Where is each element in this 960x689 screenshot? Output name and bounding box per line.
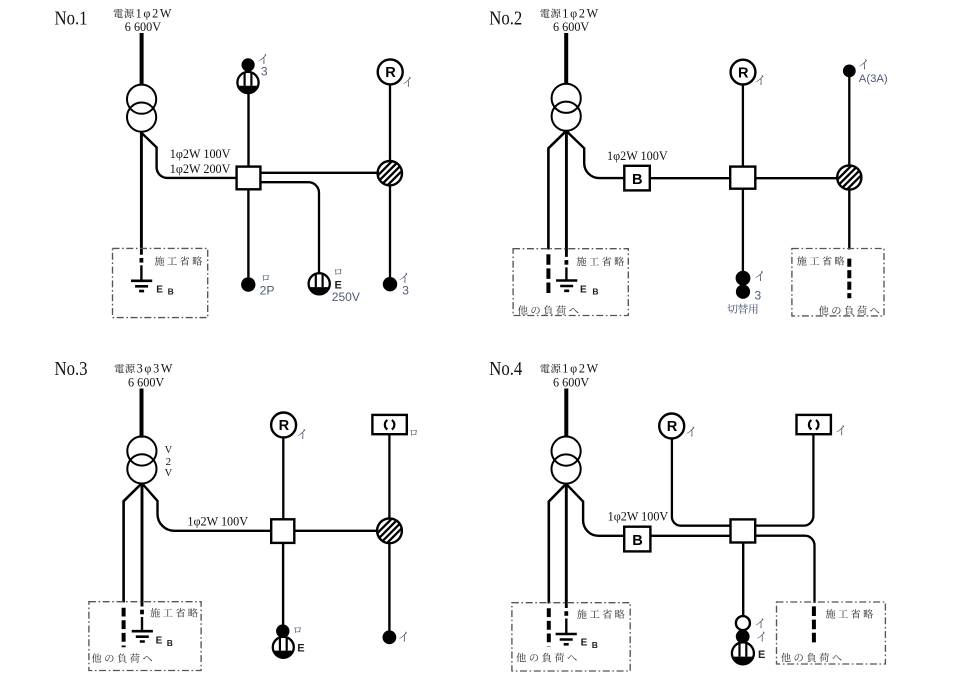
wire source feed (No.2) [564,33,568,84]
transformer T1 (No.2) [552,84,581,113]
svg-text:6 600V: 6 600V [128,376,164,390]
svg-text:B: B [592,287,598,297]
label イ (pilot lamp, No.4) [756,618,764,628]
svg-text:E: E [156,284,163,295]
switch イ dot (No.4) [736,630,750,644]
lamp receptacle R (No.1) [378,59,403,84]
svg-text:250V: 250V [332,290,360,304]
label 他の負荷へ (No.3) [92,653,102,662]
lamp receptacle R (No.3) [271,413,296,438]
label 電源 1φ2W (No.2) [540,9,549,18]
label 施工省略 (No.1) [155,256,165,265]
svg-text:B: B [632,533,643,549]
wire breaker to junction box (No.2) [650,177,730,179]
wire transformer to breaker B (No.2) [566,131,624,178]
ground electrode E_B (No.2) [556,281,577,291]
junction box (No.1) [237,167,261,190]
svg-text:E: E [297,642,304,654]
svg-text:2: 2 [166,456,172,468]
transformer T1 (No.4) [552,437,581,466]
wire junction box to other loads (No.4) [755,536,814,603]
wire source feed (No.4) [564,389,568,438]
wire transformer to junction box (No.3) [142,483,271,531]
switch イ3 dot (top, No.1) [242,58,255,71]
wire outlet box down to switch (No.1) [389,185,391,277]
label イ (switch, No.4) [757,632,765,642]
switch ロ2P dot (No.1) [241,277,255,291]
svg-text:1φ2W: 1φ2W [562,7,600,21]
svg-text:E: E [580,285,587,296]
svg-text:3: 3 [261,64,268,78]
lamp receptacle R (No.2) [731,60,756,85]
junction box (No.2) [730,167,755,189]
label 施工省略 (left box, No.4) [577,609,587,618]
wire junction box to outlet box (No.3) [294,530,377,532]
svg-text:1φ2W 100V: 1φ2W 100V [170,147,231,161]
wire outlet box up to auto switch (No.2) [848,77,850,165]
label イ (ceiling rose, No.4) [836,425,844,435]
wire ceiling rose to junction box (No.4) [755,434,813,526]
svg-text:R: R [738,65,749,81]
construction-omitted box (right, No.2) [792,249,884,316]
construction-omitted box (right, No.4) [777,602,886,664]
label 電源 3φ3W (No.3) [114,364,123,373]
wire transformer to junction box (No.1) [142,133,237,178]
label ロ (2P switch, No.1) [262,275,269,281]
wire to other loads (No.4) [549,484,566,604]
wire junction box down to switches (No.2) [742,189,744,271]
wire junction box down to switch (No.3) [282,543,284,625]
ceiling rose (rect, No.3) [372,415,406,434]
svg-text:No.2: No.2 [489,8,522,29]
label イ (top switch, No.1) [259,54,267,64]
construction-omitted box (No.3) [89,602,201,671]
outlet (top, No.1) [237,72,258,93]
wire lamp receptacle to outlet box (No.1) [389,85,391,162]
switch イ dot (No.2) [736,271,751,286]
switch ロ dot (No.3) [276,624,289,637]
svg-text:2P: 2P [260,284,275,298]
label 切替用 (No.2) [727,304,737,314]
outlet E (No.4) [732,642,754,664]
svg-text:1φ2W 100V: 1φ2W 100V [608,509,669,523]
wire to other loads (No.2) [548,131,566,250]
label ロ (switch, No.3) [294,627,301,633]
svg-text:V: V [165,445,173,456]
svg-text:3: 3 [755,289,762,303]
breaker B (No.2) [624,166,650,191]
outlet E 250V (No.1) [309,273,330,294]
svg-text:R: R [279,418,290,434]
svg-text:1φ2W: 1φ2W [562,362,600,376]
ceiling rose (rect, No.4) [797,415,831,434]
svg-text:E: E [581,638,588,649]
wire junction box right to outlet box (No.1) [260,172,377,174]
label イ (lamp receptacle, No.4) [687,427,695,437]
label ロ (ceiling rose, No.3) [410,430,417,436]
svg-text:R: R [667,419,678,435]
label イ (lamp receptacle, No.3) [297,429,305,439]
wire outlet box down to switch (No.3) [388,543,390,630]
wire junction box to outlet box (No.2) [755,177,837,179]
transformer T1 (No.1) [127,85,156,114]
transformer V2V (No.3) [127,436,156,465]
wire lamp receptacle to junction box (No.4) [672,439,731,526]
label 施工省略 (No.3) [150,608,160,617]
construction-omitted box (left, No.4) [512,603,630,671]
label 電源 1φ2W (No.4) [540,364,549,373]
switch イ dot (No.3) [383,630,397,644]
svg-text:6 600V: 6 600V [553,20,589,34]
switch 3 dot (No.2) [736,285,750,299]
svg-text:1φ2W 100V: 1φ2W 100V [187,515,248,529]
svg-text:B: B [168,287,174,297]
ground electrode E_B (No.3) [132,631,153,641]
svg-text:3: 3 [402,284,409,298]
wire transformer to ground (No.2) [565,131,568,257]
label 施工省略 (left box, No.2) [577,257,587,266]
wire to other loads (No.3) [124,483,142,602]
wire junction box down to switches (No.4) [742,543,744,616]
label 施工省略 (right box, No.4) [826,609,836,618]
label イ (lamp receptacle, No.2) [756,75,764,85]
svg-text:3φ3W: 3φ3W [137,362,175,376]
junction box (No.4) [731,519,756,542]
auto switch dot A(3A) (No.2) [843,65,856,78]
wire source feed (No.3) [140,389,144,438]
wire transformer to ground (No.3) [141,483,144,606]
svg-text:1φ2W 100V: 1φ2W 100V [607,149,668,163]
wire junction box up to lamp receptacle (No.3) [282,438,284,520]
ground electrode E_B (No.1) [131,281,152,291]
wire breaker to junction box (No.4) [650,535,730,537]
label 他の負荷へ (right box, No.2) [819,306,829,315]
label 他の負荷へ (right box, No.4) [781,653,791,662]
lamp receptacle R (No.4) [659,414,684,439]
label イ (bottom switch, No.1) [400,273,408,283]
svg-text:R: R [385,65,396,81]
svg-text:6 600V: 6 600V [125,20,161,34]
wire transformer to ground (No.4) [565,484,568,608]
wire junction box up to outlet (No.1) [247,93,249,167]
svg-text:1φ2W: 1φ2W [136,7,174,21]
wire transformer to ground (No.1) [140,132,143,255]
breaker B (No.4) [624,527,650,552]
wire junction box down to switch 2P (No.1) [247,189,249,277]
svg-text:1φ2W 200V: 1φ2W 200V [170,162,231,176]
label ロ (outlet 250V, No.1) [335,269,342,275]
svg-text:B: B [592,640,598,650]
wire transformer to breaker B (No.4) [566,484,624,536]
wire ceiling rose to outlet box (No.3) [388,435,390,519]
label 電源 1φ2W (No.1) [113,9,122,18]
svg-text:No.3: No.3 [55,359,88,380]
wire junction box to outlet E 250V (No.1) [260,182,319,273]
label イ (lamp receptacle, No.1) [403,77,411,87]
label 他の負荷へ (left box, No.2) [518,305,528,314]
svg-text:E: E [156,636,163,647]
switch イ3 dot (bottom, No.1) [383,277,397,291]
svg-text:B: B [167,638,173,648]
pilot lamp (No.4) [736,616,750,630]
label イ (bottom switch, No.3) [399,632,407,642]
outlet E (No.3) [273,637,294,658]
svg-text:6 600V: 6 600V [553,376,589,390]
construction-omitted box (No.1) [113,248,208,317]
svg-text:E: E [758,649,765,661]
wire outlet box to other loads (No.2) [848,190,850,250]
wire junction box up to lamp receptacle (No.2) [742,84,744,166]
label イ (auto switch, No.2) [859,59,867,69]
wire source feed (No.1) [140,33,144,85]
junction box (No.3) [271,519,294,543]
label 他の負荷へ (left box, No.4) [516,653,526,662]
svg-text:No.4: No.4 [489,359,522,380]
svg-text:A(3A): A(3A) [859,73,888,85]
label 施工省略 (right box, No.2) [797,256,807,265]
construction-omitted box (left, No.2) [513,249,628,316]
svg-text:No.1: No.1 [55,8,88,29]
ground electrode E_B (No.4) [556,634,577,644]
svg-text:V: V [165,468,173,479]
label イ (switches, No.2) [755,271,763,281]
svg-text:B: B [632,172,643,188]
